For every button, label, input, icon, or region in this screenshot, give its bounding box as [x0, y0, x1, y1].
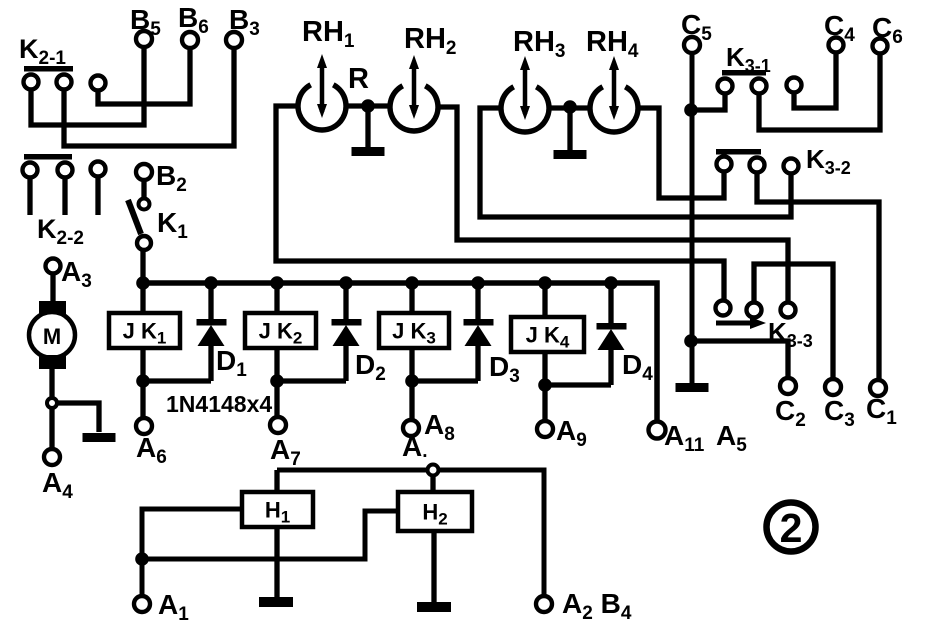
svg-text:2: 2: [780, 505, 803, 551]
svg-text:M: M: [43, 324, 61, 349]
svg-text:1N4148x4: 1N4148x4: [166, 391, 272, 417]
svg-text:R: R: [348, 63, 369, 95]
